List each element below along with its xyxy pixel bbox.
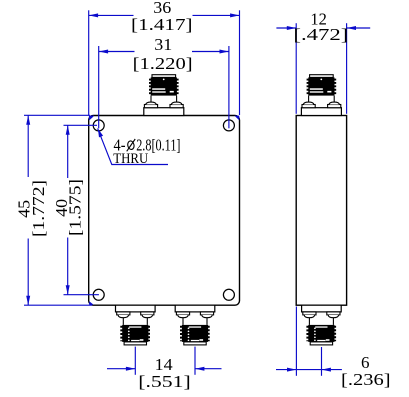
leader arrow for hole callout — [98, 129, 103, 138]
side top SMA connector: hex-nut ear left — [302, 105, 315, 108]
side top SMA connector: pin line — [308, 96, 310, 103]
svg-text:[.472]: [.472] — [293, 25, 348, 44]
dimension 6 [.236]: dimension line with outside arrows — [276, 369, 296, 371]
svg-text:[1.575]: [1.575] — [66, 179, 85, 236]
side view: enclosure body outline — [296, 116, 346, 306]
side bottom SMA connector: threaded barrel — [306, 326, 308, 341]
side bottom SMA connector: pin line — [308, 318, 310, 325]
dimension 14 [.551]: extension line left — [134, 347, 136, 375]
side bottom SMA connector: hex-nut ear right — [327, 312, 340, 315]
svg-text:[1.772]: [1.772] — [29, 180, 48, 237]
front bottom-left SMA connector: hex-nut ear right — [141, 312, 154, 315]
front bottom-right SMA connector: bottom cap — [184, 342, 206, 345]
front top SMA connector: top cap — [152, 75, 176, 78]
front top SMA connector: pin line — [176, 96, 178, 103]
front view: enclosure body outline — [89, 116, 240, 306]
front bottom-right SMA connector: flange — [175, 305, 215, 312]
front top SMA connector: hex-nut ear right — [170, 105, 183, 108]
svg-text:THRU: THRU — [113, 151, 148, 167]
svg-text:[.551]: [.551] — [138, 372, 191, 391]
svg-text:[1.220]: [1.220] — [133, 54, 193, 73]
front bottom-right SMA connector: threaded barrel — [180, 326, 182, 341]
mounting hole bottom-right (4x dia 2.8 thru) — [223, 289, 234, 300]
front bottom-left SMA connector: flange — [116, 305, 156, 312]
mounting hole bottom-left (4x dia 2.8 thru) — [93, 289, 104, 300]
front bottom-left SMA connector: bottom cap — [124, 342, 146, 345]
front bottom-left SMA connector: threaded barrel — [120, 326, 122, 341]
side top SMA connector: hex-nut ear right — [328, 105, 341, 108]
dimension 36 [1.417]: dimension line — [89, 14, 134, 16]
side top SMA connector: flange — [301, 108, 341, 116]
svg-text:[1.417]: [1.417] — [131, 15, 193, 34]
dimension 6 [.236]: extension line left — [295, 307, 297, 376]
front bottom-right SMA connector: hex-nut ear right — [200, 312, 213, 315]
dimension 45 [1.772]: dimension line — [27, 115, 29, 177]
front top SMA connector: hex-nut ear left — [144, 105, 157, 108]
leader line for hole callout — [98, 128, 168, 164]
front bottom-right SMA connector: pin line — [182, 318, 184, 325]
side top SMA connector: threaded barrel — [307, 79, 309, 95]
dimension 40 [1.575]: dimension line — [67, 125, 69, 178]
corner arrowhead top-left — [89, 116, 94, 121]
side bottom SMA connector: hex-nut ear left — [303, 312, 316, 315]
front bottom-right SMA connector: pin line — [206, 318, 208, 325]
side top SMA connector: pin line — [333, 96, 335, 103]
front top SMA connector: pin line — [150, 96, 152, 103]
dimension 31 [1.220]: extension line left — [98, 46, 100, 128]
dimension 14 [.551]: extension line right — [194, 347, 196, 375]
corner arrowhead bottom-left — [89, 301, 94, 305]
dimension 40 [1.575]: extension line bottom — [64, 294, 99, 296]
mounting hole top-left (4x dia 2.8 thru) — [93, 120, 104, 131]
dimension 14 [.551]: dimension line with outside arrows — [107, 368, 135, 370]
side bottom SMA connector: bottom cap — [310, 342, 332, 345]
diameter symbol — [127, 139, 136, 151]
corner arrowhead top-right — [234, 116, 239, 121]
svg-text:31: 31 — [154, 35, 172, 54]
dimension 45 [1.772]: extension line bottom — [24, 304, 92, 306]
dimension 12 [.472]: extension line right — [346, 23, 348, 114]
side bottom SMA connector: flange — [302, 305, 342, 312]
dimension 36 [1.417]: extension line right — [239, 10, 241, 115]
front top SMA connector: flange — [144, 108, 184, 116]
front bottom-left SMA connector: pin line — [122, 318, 124, 325]
front bottom-right SMA connector: hex-nut ear left — [176, 312, 189, 315]
dimension 40 [1.575]: extension line top — [64, 124, 98, 126]
mounting hole top-right (4x dia 2.8 thru) — [223, 120, 234, 131]
side bottom SMA connector: pin line — [332, 318, 334, 325]
front top SMA connector: threaded barrel — [149, 79, 151, 95]
dimension 12 [.472]: extension line left — [295, 23, 297, 114]
dimension 31 [1.220]: dimension line — [99, 51, 135, 53]
front bottom-left SMA connector: hex-nut ear left — [117, 312, 130, 315]
front bottom-left SMA connector: pin line — [146, 318, 148, 325]
dimension 12 [.472]: dimension line with outside arrows — [276, 27, 296, 29]
dimension 31 [1.220]: extension line right — [228, 46, 230, 128]
side top SMA connector: top cap — [310, 75, 334, 78]
hole callout text 4-dia2.8[0.11] — [114, 135, 181, 154]
dimension 36 [1.417]: extension line left — [88, 10, 90, 115]
svg-text:[.236]: [.236] — [341, 370, 391, 389]
dimension 45 [1.772]: extension line top — [24, 114, 90, 116]
dimension 6 [.236]: extension line right (connector centreline) — [321, 347, 323, 376]
